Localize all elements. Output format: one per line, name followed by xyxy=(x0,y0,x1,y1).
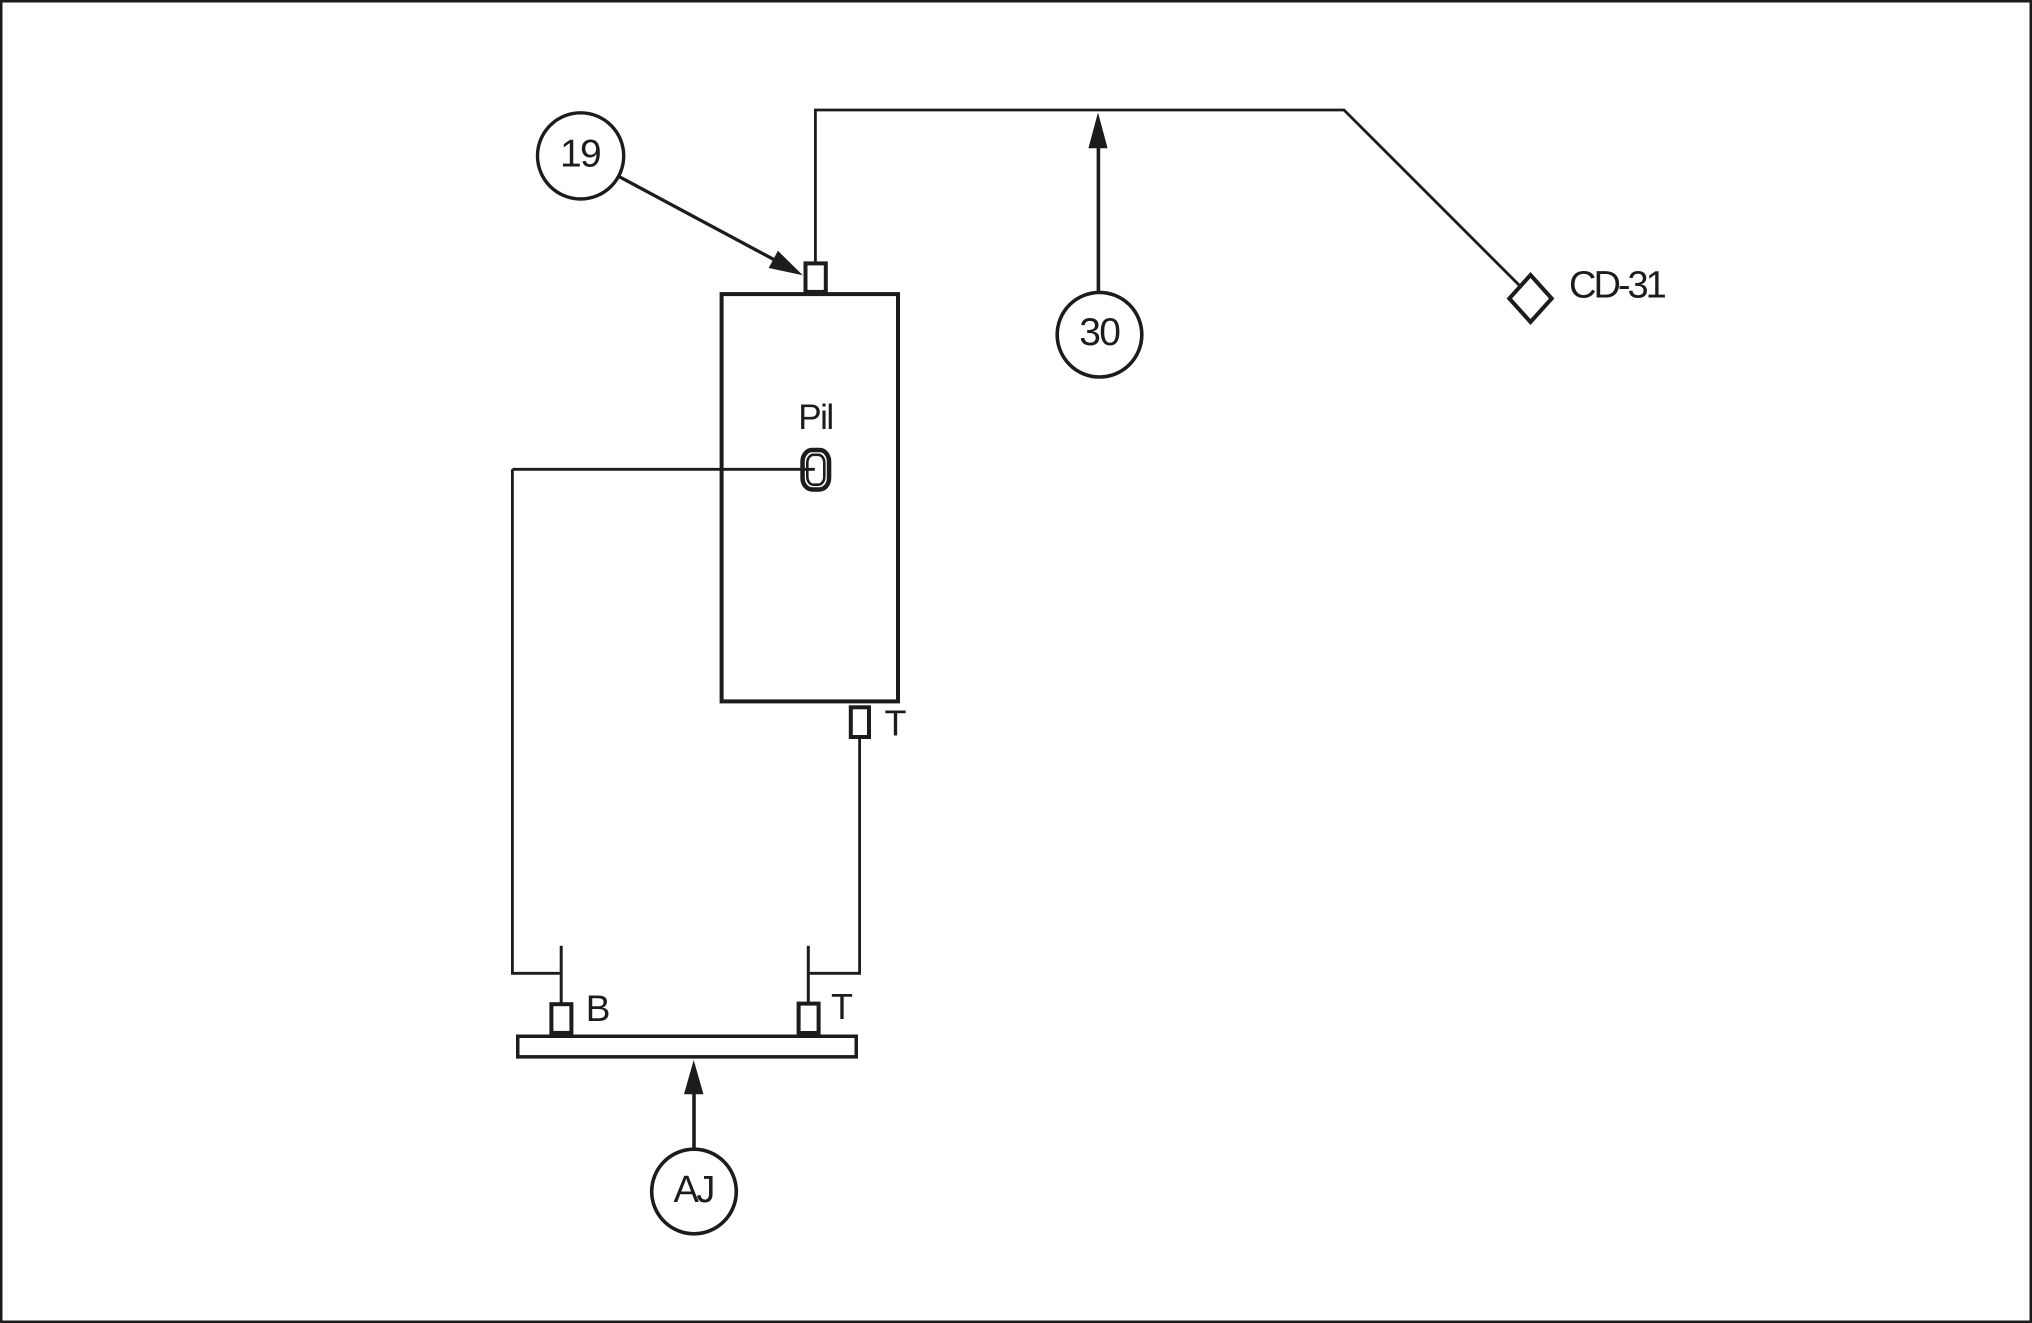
connector pin B xyxy=(551,1004,571,1033)
svg-text:CD-31: CD-31 xyxy=(1569,265,1666,307)
terminal T (bottom of Pil box) xyxy=(851,707,869,737)
connector strip AJ (bar) xyxy=(518,1036,857,1057)
leader line from callout 19 xyxy=(619,176,786,265)
callout circle 19 xyxy=(538,113,624,199)
wire from terminal T down to connector T xyxy=(810,737,860,973)
wire down from lamp wire to connector B xyxy=(512,469,559,973)
terminal 19 (top connector pin) xyxy=(806,263,826,292)
svg-text:T: T xyxy=(885,703,907,744)
arrow from callout 30 to wire xyxy=(1097,148,1101,293)
svg-text:19: 19 xyxy=(560,133,600,176)
svg-text:30: 30 xyxy=(1079,311,1120,354)
arrowhead of callout 19 xyxy=(769,251,803,275)
wire from terminal 19 up and right to CD-31 xyxy=(815,110,1530,297)
connector diamond CD-31 xyxy=(1509,275,1551,322)
component box Pil (pilot unit) xyxy=(722,294,898,701)
arrowhead of callout AJ xyxy=(684,1060,704,1094)
svg-text:B: B xyxy=(586,988,609,1029)
pilot lamp oval (inner ring) xyxy=(807,455,824,485)
connector pin T xyxy=(799,1004,819,1033)
stub wire at connector B xyxy=(560,946,563,1003)
svg-text:Pil: Pil xyxy=(798,398,832,437)
stub wire at connector T xyxy=(807,946,810,1003)
callout circle AJ xyxy=(652,1149,737,1234)
pilot lamp oval (outer ring) xyxy=(803,450,830,489)
wire from pilot lamp to the left xyxy=(512,468,814,471)
svg-text:T: T xyxy=(831,986,853,1027)
arrow from callout AJ to bar xyxy=(692,1093,696,1150)
callout circle 30 xyxy=(1057,292,1142,377)
svg-text:AJ: AJ xyxy=(674,1169,714,1211)
arrowhead of callout 30 xyxy=(1088,113,1107,149)
